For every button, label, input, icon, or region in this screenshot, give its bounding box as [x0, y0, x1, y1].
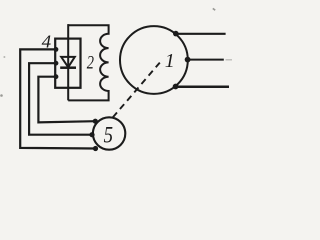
svg-text:5: 5 [104, 123, 113, 148]
svg-text:4: 4 [42, 31, 52, 51]
svg-text:1: 1 [165, 50, 175, 72]
svg-text:2: 2 [87, 53, 94, 73]
